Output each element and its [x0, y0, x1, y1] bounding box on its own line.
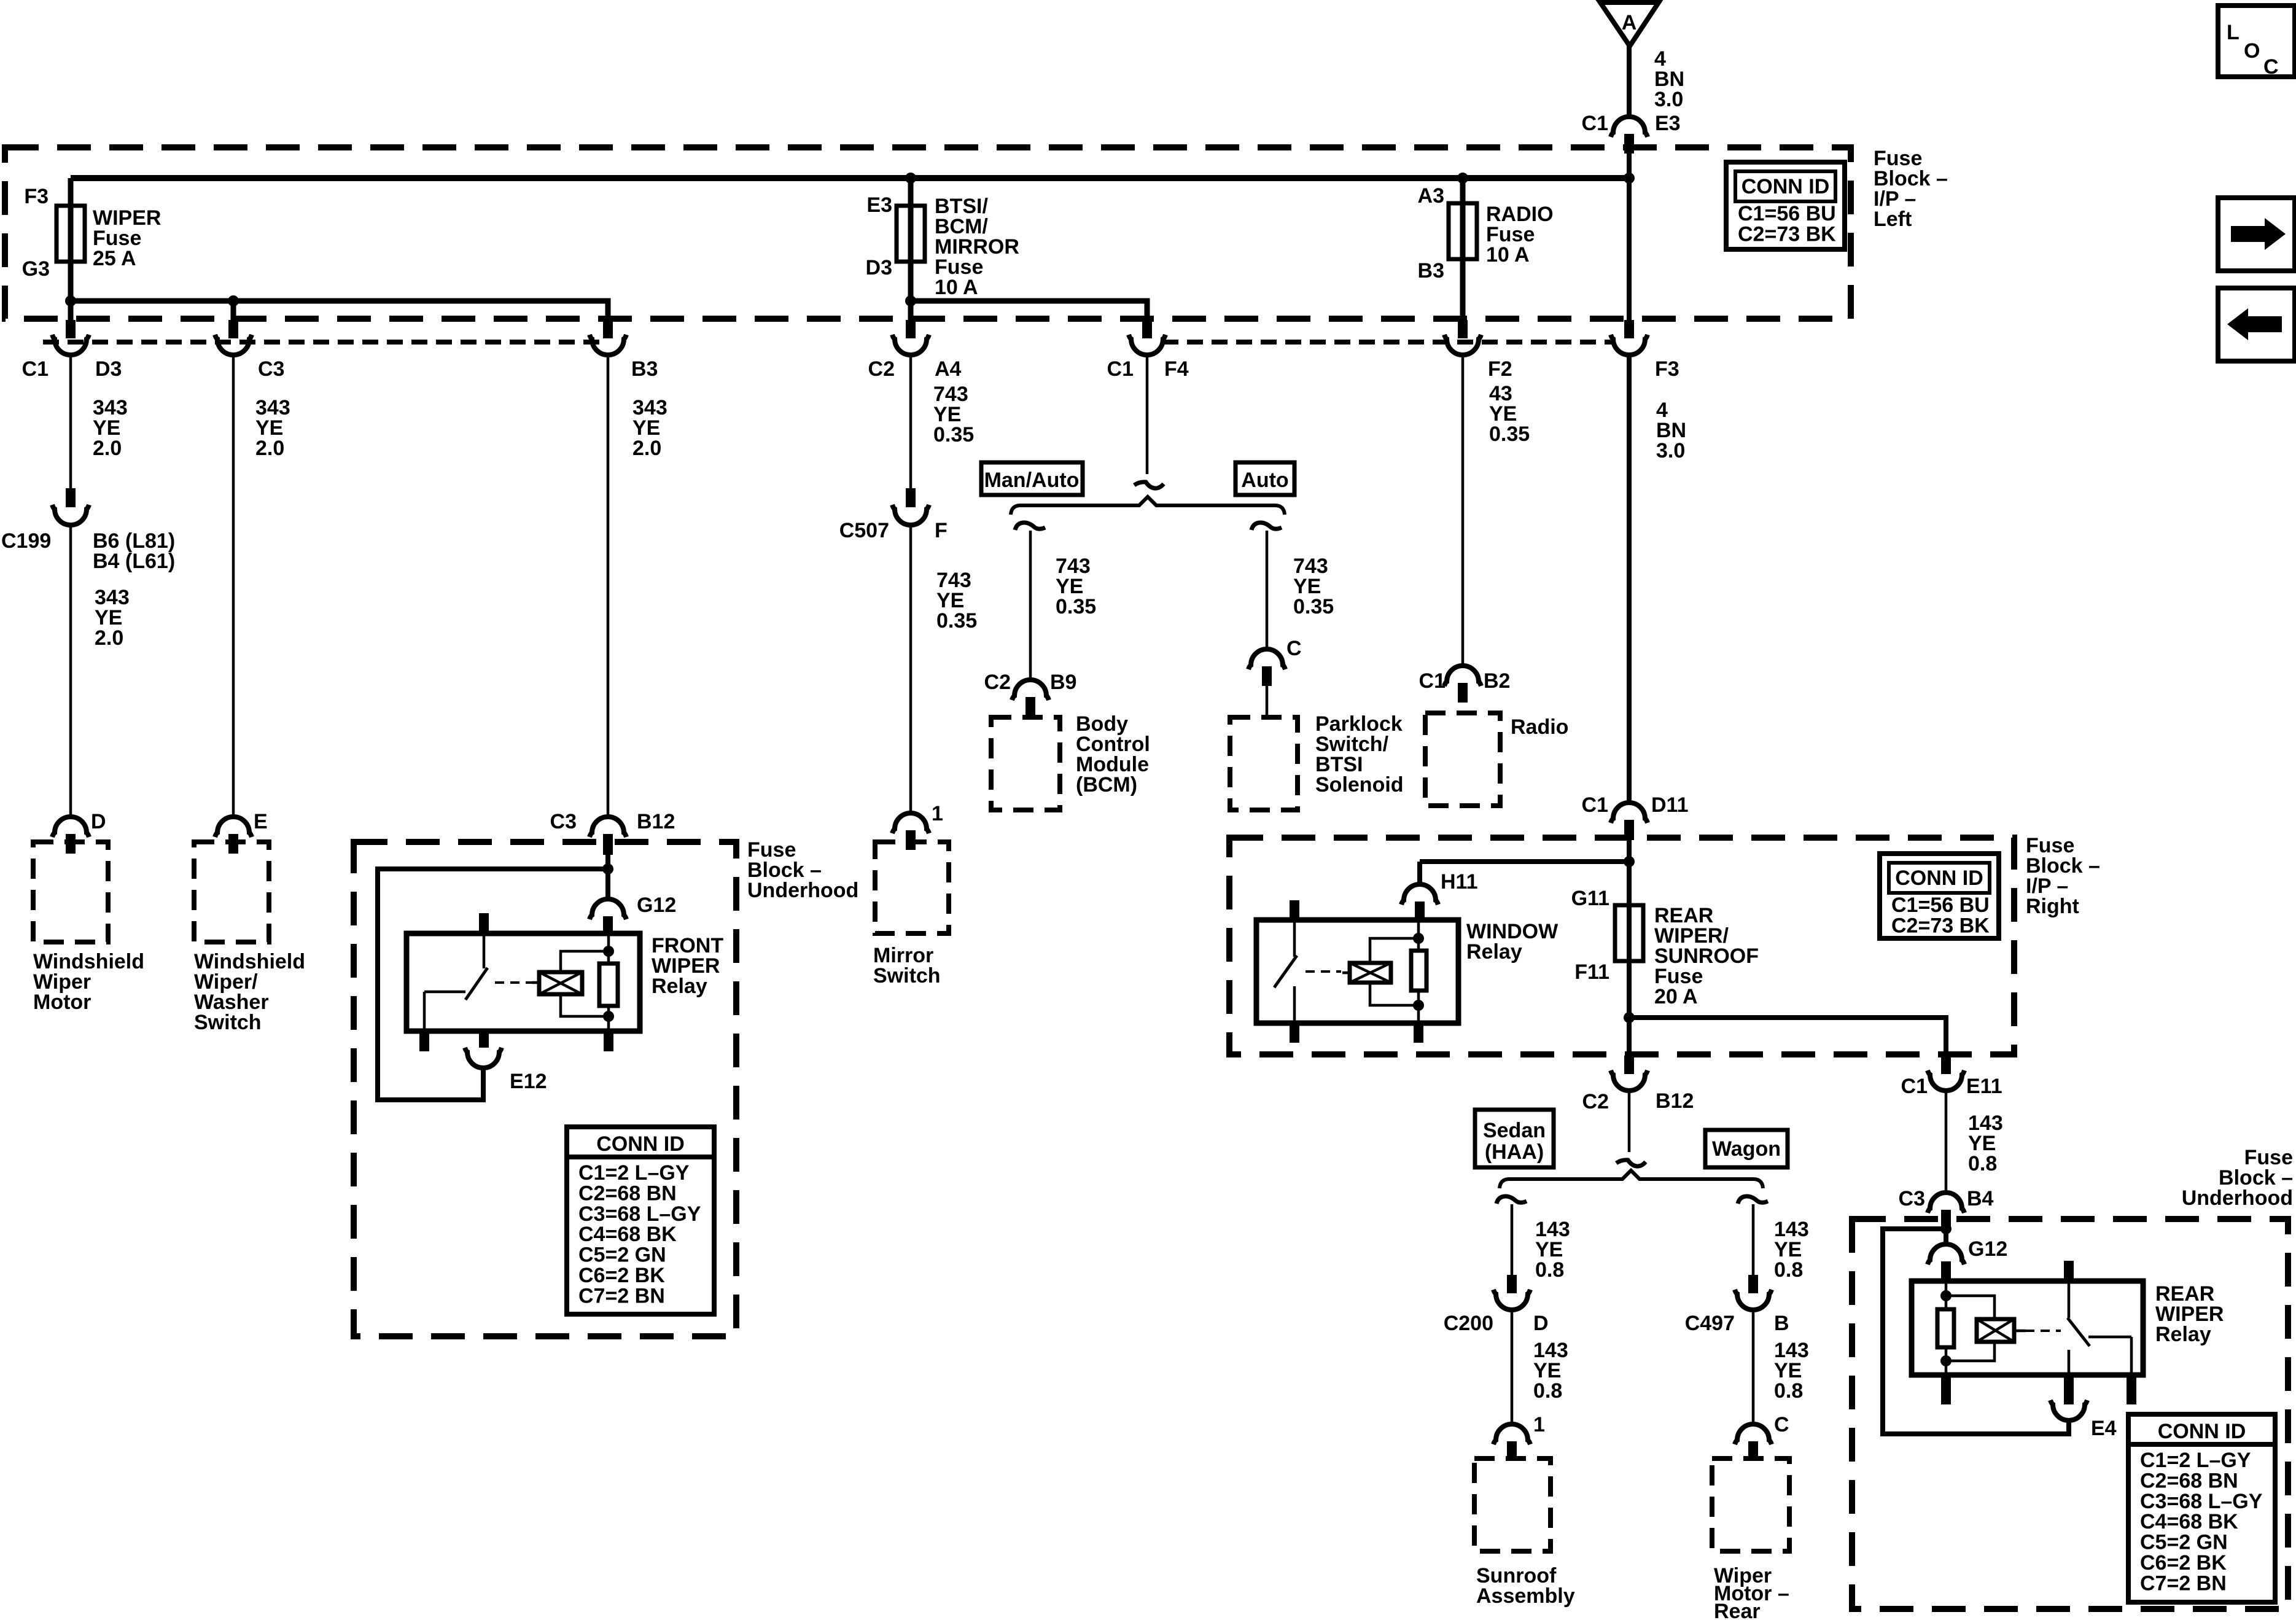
svg-text:0.8: 0.8	[1774, 1379, 1803, 1403]
conn id box (underhood right)	[2128, 1414, 2275, 1602]
relay coil (front)	[532, 972, 582, 994]
svg-text:B9: B9	[1050, 671, 1076, 694]
junction B12/loop	[602, 863, 613, 874]
svg-text:B12: B12	[637, 810, 675, 833]
svg-text:CONN ID: CONN ID	[2158, 1420, 2246, 1443]
junction at C3 drop	[228, 295, 239, 306]
wire H11 tap	[1420, 862, 1629, 886]
connector C1/E3	[1582, 112, 1681, 154]
svg-text:C: C	[1774, 1413, 1789, 1436]
svg-text:C4=68 BK: C4=68 BK	[578, 1223, 677, 1246]
windshield wiper/washer switch label	[194, 950, 305, 1034]
junction at feed	[1624, 173, 1635, 184]
svg-text:Motor: Motor	[33, 991, 91, 1014]
connector F2	[1444, 320, 1512, 381]
svg-text:Underhood: Underhood	[2182, 1186, 2293, 1210]
fuse E3/D3 BTSI/BCM/MIRROR 10A	[866, 178, 925, 320]
svg-text:C7=2 BN: C7=2 BN	[2140, 1571, 2227, 1595]
branch hook (man/auto)	[1015, 523, 1045, 530]
mirror switch box	[875, 842, 949, 933]
wire B4 to G12	[1944, 1229, 1948, 1247]
svg-text:C200: C200	[1444, 1312, 1493, 1335]
wire B3 to B12	[607, 354, 610, 817]
connector C200/D	[1444, 1275, 1549, 1335]
fuse block I/P right dashed box	[1229, 838, 2014, 1054]
windshield wiper motor box	[33, 842, 108, 942]
svg-text:C199: C199	[1, 529, 51, 553]
window relay coil link	[1306, 970, 1341, 973]
svg-text:20 A: 20 A	[1654, 985, 1698, 1008]
svg-text:G3: G3	[22, 257, 50, 281]
junction B4 loop	[1940, 1223, 1952, 1234]
svg-text:(BCM): (BCM)	[1076, 773, 1137, 796]
connector row line right	[1162, 340, 1614, 345]
front wiper relay label	[652, 934, 723, 998]
wire label 143 YE 0.8 (wagon)	[1774, 1218, 1809, 1282]
wire label 4 BN 3.0	[1654, 47, 1684, 111]
connector C1/F3	[1611, 320, 1679, 381]
svg-text:2.0: 2.0	[632, 437, 661, 460]
wire sedan branch	[1511, 1204, 1514, 1275]
label WIPER Fuse 25 A	[93, 206, 161, 270]
svg-text:C3: C3	[258, 357, 284, 381]
label REAR WIPER/SUNROOF Fuse 20 A	[1654, 904, 1759, 1008]
sunroof assembly box	[1474, 1458, 1551, 1551]
wire label 743 YE 0.35 (C507)	[936, 569, 977, 633]
connector C199	[1, 488, 175, 573]
wire C199 to D	[69, 525, 72, 817]
connector C (parklock)	[1248, 637, 1302, 717]
body control module box	[991, 717, 1060, 810]
wire C497 to rear wiper motor	[1752, 1309, 1755, 1425]
svg-text:B4: B4	[1967, 1187, 1994, 1210]
conn id box (I/P left)	[1726, 162, 1845, 249]
rear relay coil	[1977, 1319, 2025, 1342]
rear wiper relay box	[1912, 1281, 2143, 1375]
relay coil link dashes	[495, 981, 533, 984]
wire label 143 YE 0.8 (sedan)	[1535, 1218, 1570, 1282]
wire F2 to radio	[1461, 354, 1465, 666]
svg-text:A3: A3	[1418, 184, 1444, 208]
svg-text:1: 1	[1533, 1413, 1545, 1436]
svg-text:C5=2 GN: C5=2 GN	[2140, 1531, 2228, 1554]
wire F3 to D11	[1627, 354, 1632, 803]
svg-text:C497: C497	[1685, 1312, 1735, 1335]
man/auto option box	[981, 462, 1083, 495]
window relay label	[1466, 920, 1559, 964]
bus wire	[71, 175, 1629, 181]
auto option box	[1236, 462, 1294, 495]
distribution wire from WIPER fuse	[71, 301, 608, 320]
svg-text:C1: C1	[1901, 1075, 1928, 1098]
svg-text:10 A: 10 A	[935, 276, 978, 299]
windshield wiper/washer switch box	[194, 842, 269, 942]
svg-text:C1=2 L–GY: C1=2 L–GY	[2140, 1449, 2251, 1472]
front wiper relay box	[407, 933, 640, 1031]
svg-text:C1: C1	[1107, 357, 1134, 381]
next page arrow box	[2218, 198, 2295, 271]
svg-text:C7=2 BN: C7=2 BN	[578, 1284, 665, 1307]
svg-text:0.8: 0.8	[1535, 1258, 1564, 1282]
wire C200 to sunroof	[1511, 1309, 1514, 1425]
wire label 4 BN 3.0 (F3)	[1656, 399, 1686, 462]
connector C2/B12 (bottom)	[1582, 1056, 1694, 1113]
svg-text:1: 1	[932, 802, 943, 825]
window relay coil bracket	[1370, 938, 1418, 1005]
window relay pin stub	[1290, 900, 1299, 920]
label RADIO Fuse 10 A	[1486, 203, 1554, 267]
connector C2/B9	[984, 671, 1077, 717]
svg-text:D3: D3	[95, 357, 122, 381]
svg-text:C1: C1	[1582, 112, 1608, 135]
svg-text:L: L	[2227, 21, 2240, 44]
wire break hook (B12)	[1616, 1160, 1646, 1166]
svg-text:CONN ID: CONN ID	[1895, 866, 1983, 890]
svg-text:G11: G11	[1571, 887, 1609, 910]
svg-text:Switch: Switch	[873, 964, 941, 987]
mirror switch label	[873, 944, 941, 987]
svg-text:2.0: 2.0	[255, 437, 284, 460]
svg-text:C2: C2	[984, 671, 1011, 694]
window relay bottom pin	[1414, 1023, 1423, 1043]
rear relay coil bracket	[1946, 1296, 1994, 1361]
wiper motor rear label	[1714, 1564, 1789, 1620]
svg-text:D: D	[1533, 1312, 1549, 1335]
fuse block underhood left label	[747, 838, 858, 902]
svg-text:C: C	[2263, 55, 2279, 79]
fuse block underhood right dashed box	[1852, 1219, 2288, 1609]
wire label 43 YE 0.35	[1489, 382, 1530, 446]
junction at BTSI fuse tap	[905, 173, 916, 184]
svg-text:C2=73 BK: C2=73 BK	[1891, 914, 1990, 937]
svg-text:C2: C2	[868, 357, 895, 381]
svg-text:Relay: Relay	[652, 975, 707, 998]
connector 1 (mirror switch)	[892, 802, 943, 850]
svg-text:A4: A4	[935, 357, 962, 381]
relay switch (front)	[419, 933, 488, 1051]
LOC box	[2218, 6, 2295, 79]
conn id box (I/P right)	[1880, 854, 1999, 938]
svg-text:E11: E11	[1966, 1075, 2002, 1098]
power feed triangle A	[1600, 2, 1659, 46]
label BTSI/BCM/MIRROR Fuse 10 A	[935, 195, 1019, 299]
svg-text:C2=68 BN: C2=68 BN	[2140, 1469, 2238, 1492]
wire label 343 YE 2.0 (D3)	[93, 396, 128, 460]
ground loop wire (rear)	[1883, 1229, 2069, 1434]
svg-text:F4: F4	[1164, 357, 1189, 381]
wire label 743 YE 0.35 (A4)	[933, 383, 974, 446]
branch hook (auto)	[1251, 523, 1282, 530]
fuse block I/P right label	[2026, 834, 2100, 918]
relay resistor (front)	[599, 935, 618, 1031]
fuse block I/P left dashed box	[5, 147, 1851, 319]
svg-text:0.35: 0.35	[933, 423, 974, 446]
wire drop C3	[231, 301, 236, 320]
svg-text:E3: E3	[866, 193, 892, 217]
svg-text:D3: D3	[866, 256, 892, 279]
connector C1/B2	[1419, 666, 1511, 703]
svg-text:C3=68 L–GY: C3=68 L–GY	[578, 1202, 701, 1226]
junction E11 tap	[1624, 1012, 1635, 1023]
junction H11 tap	[1624, 856, 1635, 867]
rear relay bottom pin	[1941, 1375, 1951, 1404]
svg-text:CONN ID: CONN ID	[1741, 175, 1830, 198]
connector C2/A4	[868, 320, 962, 381]
svg-text:Wagon: Wagon	[1712, 1137, 1781, 1161]
rear relay coil link	[2025, 1330, 2061, 1332]
connector C1/D11	[1582, 793, 1689, 840]
radio label	[1511, 715, 1568, 739]
svg-text:0.35: 0.35	[936, 609, 977, 633]
svg-text:Solenoid: Solenoid	[1315, 773, 1404, 796]
wire E11 to B4	[1945, 1091, 1948, 1193]
svg-text:C2: C2	[1582, 1090, 1609, 1113]
svg-text:10 A: 10 A	[1486, 243, 1530, 267]
svg-text:E4: E4	[2091, 1417, 2117, 1440]
svg-text:3.0: 3.0	[1656, 439, 1685, 462]
connector C1/C3	[215, 320, 284, 381]
svg-text:C5=2 GN: C5=2 GN	[578, 1244, 666, 1267]
fuse A3/B3 RADIO 10A	[1418, 178, 1477, 320]
svg-text:0.35: 0.35	[1056, 595, 1096, 618]
wire label 143 YE 0.8 (C497)	[1774, 1339, 1809, 1403]
wire label 743 YE 0.35 (C)	[1293, 555, 1334, 618]
svg-text:C1=2 L–GY: C1=2 L–GY	[578, 1161, 690, 1185]
fuse block underhood left dashed box	[354, 842, 736, 1336]
svg-text:0.35: 0.35	[1293, 595, 1334, 618]
svg-text:C1=56 BU: C1=56 BU	[1738, 202, 1836, 225]
wire C507 to mirror switch	[909, 525, 913, 814]
svg-text:C: C	[1286, 637, 1302, 660]
svg-text:Relay: Relay	[1466, 940, 1522, 964]
svg-text:Radio: Radio	[1511, 715, 1568, 739]
svg-text:A: A	[1622, 11, 1637, 34]
svg-text:Left: Left	[1874, 208, 1912, 231]
connector C497/B	[1685, 1275, 1789, 1335]
connector D	[52, 810, 106, 854]
svg-text:E12: E12	[510, 1070, 547, 1093]
wiper motor rear box	[1712, 1458, 1789, 1551]
wire label 343 YE 2.0 (B3)	[632, 396, 667, 460]
wire auto branch	[1266, 531, 1269, 650]
branch hook (sedan)	[1496, 1196, 1527, 1204]
row label C1	[22, 357, 49, 381]
svg-text:C3: C3	[1899, 1187, 1925, 1210]
svg-text:C3=68 L–GY: C3=68 L–GY	[2140, 1490, 2263, 1513]
svg-text:Switch: Switch	[194, 1011, 262, 1034]
svg-text:Auto: Auto	[1241, 469, 1288, 492]
connector C3/B12	[550, 810, 675, 855]
wire label 343 YE 2.0 (C3)	[255, 396, 290, 460]
wire break hook (F4)	[1134, 482, 1164, 488]
svg-text:C1: C1	[22, 357, 49, 381]
svg-text:F3: F3	[24, 185, 49, 208]
svg-text:2.0: 2.0	[95, 626, 123, 650]
svg-text:E3: E3	[1655, 112, 1681, 135]
wire label 743 YE 0.35 (B9)	[1056, 555, 1096, 618]
wire E3 pin to block bottom	[1627, 152, 1632, 320]
svg-text:C1: C1	[1419, 669, 1446, 693]
radio box	[1425, 713, 1500, 806]
svg-text:B3: B3	[631, 357, 658, 381]
windshield wiper motor label	[33, 950, 144, 1014]
wire B12 down	[1628, 1091, 1631, 1152]
svg-text:C6=2 BK: C6=2 BK	[2140, 1551, 2227, 1575]
connector C1/E11	[1901, 1056, 2002, 1098]
wire C3 to E	[232, 354, 235, 817]
wire wagon branch	[1752, 1204, 1755, 1275]
svg-text:F: F	[935, 519, 948, 542]
svg-text:B: B	[1774, 1312, 1789, 1335]
svg-text:G12: G12	[637, 894, 676, 917]
sedan option box	[1475, 1110, 1554, 1167]
relay bottom pins (front)	[479, 1031, 613, 1051]
wire E11 branch	[1629, 1018, 1946, 1057]
wire A4 to C507	[909, 354, 913, 488]
connector C1/D3	[52, 320, 122, 381]
wire label 143 YE 0.8 (E11)	[1968, 1112, 2003, 1175]
connector C1/F4	[1107, 320, 1189, 381]
svg-text:F11: F11	[1574, 960, 1609, 984]
wire A to C1/E3	[1627, 46, 1632, 119]
wire label 143 YE 0.8 (C200)	[1533, 1339, 1568, 1403]
svg-text:H11: H11	[1441, 870, 1478, 894]
svg-text:O: O	[2244, 39, 2260, 63]
svg-text:F2: F2	[1488, 357, 1512, 381]
connector 1 (sunroof)	[1493, 1413, 1545, 1461]
svg-text:2.0: 2.0	[93, 437, 122, 460]
connector C3/B4	[1899, 1187, 1994, 1230]
svg-text:0.8: 0.8	[1774, 1258, 1803, 1282]
connector G12 (rear relay)	[1928, 1237, 2007, 1281]
fuse block I/P left label	[1874, 147, 1948, 231]
connector G12 (front relay)	[590, 894, 676, 935]
svg-text:C507: C507	[839, 519, 889, 542]
wire B12 into block	[605, 855, 610, 901]
ground loop wire	[378, 869, 608, 1100]
svg-text:0.35: 0.35	[1489, 423, 1530, 446]
svg-text:3.0: 3.0	[1654, 88, 1683, 111]
junction below BTSI fuse	[905, 295, 916, 306]
svg-text:B3: B3	[1418, 259, 1444, 282]
conn id box (underhood left)	[567, 1127, 714, 1314]
svg-text:D11: D11	[1651, 793, 1689, 817]
svg-text:C3: C3	[550, 810, 577, 833]
window relay switch	[1274, 920, 1299, 1043]
svg-text:C2=73 BK: C2=73 BK	[1738, 222, 1836, 246]
body control module label	[1076, 712, 1150, 796]
branch hook (wagon)	[1738, 1196, 1768, 1204]
svg-text:G12: G12	[1968, 1237, 2007, 1261]
parklock switch/BTSI solenoid box	[1230, 717, 1298, 810]
junction at RADIO fuse tap	[1457, 173, 1468, 184]
svg-text:0.8: 0.8	[1533, 1379, 1562, 1403]
wire F4 down	[1146, 354, 1149, 474]
connector E	[215, 810, 268, 854]
svg-text:C6=2 BK: C6=2 BK	[578, 1264, 665, 1287]
wire BTSI to F4 drop	[911, 301, 1147, 320]
fuse G11/F11 REAR WIPER/SUNROOF 20A	[1571, 887, 1643, 984]
svg-text:B4 (L61): B4 (L61)	[93, 550, 175, 573]
svg-text:E: E	[254, 810, 268, 833]
wire D11 into block	[1627, 840, 1632, 1057]
svg-text:C1=56 BU: C1=56 BU	[1891, 894, 1990, 917]
svg-text:Right: Right	[2026, 895, 2079, 918]
connector row line C1 left	[43, 340, 608, 345]
svg-text:Assembly: Assembly	[1476, 1584, 1575, 1608]
connector C1/B3	[590, 320, 658, 381]
svg-text:Sedan: Sedan	[1483, 1119, 1546, 1142]
svg-text:25 A: 25 A	[93, 247, 136, 270]
prev page arrow box	[2218, 288, 2295, 361]
svg-text:B2: B2	[1484, 669, 1510, 693]
wire man/auto branch	[1029, 531, 1032, 680]
connector C507	[839, 488, 948, 542]
svg-text:C2=68 BN: C2=68 BN	[578, 1182, 677, 1205]
rear relay resistor	[1937, 1281, 1954, 1375]
option brace	[1011, 497, 1285, 515]
svg-text:D: D	[91, 810, 106, 833]
connector H11 (window relay)	[1401, 870, 1478, 920]
svg-text:B12: B12	[1656, 1089, 1694, 1113]
svg-text:0.8: 0.8	[1968, 1152, 1997, 1175]
svg-text:C4=68 BK: C4=68 BK	[2140, 1510, 2238, 1533]
wagon option box	[1705, 1130, 1788, 1167]
svg-text:Man/Auto: Man/Auto	[984, 469, 1080, 492]
fuse block underhood right label	[2182, 1146, 2293, 1210]
relay coil bracket (front)	[561, 951, 609, 1016]
relay pin 30 stub	[479, 913, 489, 933]
wire label 343 YE 2.0 (C199)	[95, 586, 130, 650]
window relay box	[1256, 920, 1458, 1023]
window relay coil	[1342, 963, 1391, 983]
svg-text:Underhood: Underhood	[747, 879, 858, 902]
sedan/wagon brace	[1500, 1170, 1763, 1188]
connector E12	[465, 1048, 547, 1093]
sunroof assembly label	[1476, 1564, 1575, 1608]
svg-text:(HAA): (HAA)	[1485, 1140, 1544, 1164]
fuse F3/G3 WIPER 25A	[22, 178, 85, 320]
connector C (wiper motor rear)	[1735, 1413, 1789, 1461]
svg-text:F3: F3	[1655, 357, 1679, 381]
wire D3 to C199	[69, 354, 72, 488]
connector E4	[2050, 1375, 2117, 1440]
svg-text:Relay: Relay	[2155, 1323, 2211, 1346]
rear wiper relay label	[2155, 1282, 2224, 1346]
svg-text:C1: C1	[1582, 793, 1608, 817]
svg-text:Rear: Rear	[1714, 1600, 1761, 1620]
parklock label	[1315, 712, 1404, 796]
rear relay switch	[2064, 1261, 2136, 1404]
svg-text:CONN ID: CONN ID	[596, 1132, 685, 1156]
junction below WIPER fuse	[65, 295, 76, 306]
window relay resistor	[1411, 920, 1426, 1023]
